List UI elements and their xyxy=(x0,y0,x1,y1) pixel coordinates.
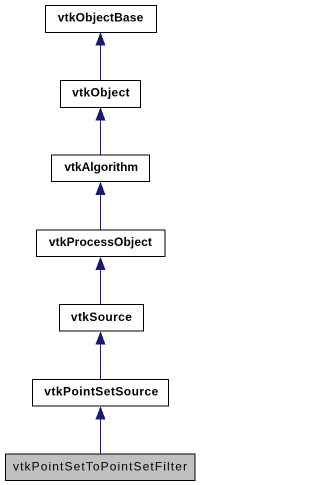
svg-text:vtkPointSetToPointSetFilter: vtkPointSetToPointSetFilter xyxy=(13,459,187,473)
svg-text:vtkPointSetSource: vtkPointSetSource xyxy=(44,385,158,399)
inheritance arrow vtkPointSetSource to vtkSource xyxy=(96,331,106,379)
class box vtkSource xyxy=(60,305,144,331)
svg-text:vtkSource: vtkSource xyxy=(71,310,132,324)
svg-text:vtkObject: vtkObject xyxy=(72,86,130,100)
inheritance arrow vtkAlgorithm to vtkObject xyxy=(96,107,106,155)
inheritance arrow vtkSource to vtkProcessObject xyxy=(96,257,106,305)
svg-text:vtkProcessObject: vtkProcessObject xyxy=(49,235,152,249)
inheritance arrow vtkProcessObject to vtkAlgorithm xyxy=(96,182,106,230)
class box vtkAlgorithm xyxy=(52,155,150,181)
inheritance arrow vtkObject to vtkObjectBase xyxy=(96,32,106,80)
svg-text:vtkAlgorithm: vtkAlgorithm xyxy=(64,160,138,174)
class box vtkPointSetSource xyxy=(33,379,169,405)
current class box vtkPointSetToPointSetFilter (grey) xyxy=(6,454,196,481)
class box vtkObject xyxy=(61,81,141,108)
class box vtkProcessObject xyxy=(37,230,166,256)
svg-text:vtkObjectBase: vtkObjectBase xyxy=(58,11,144,25)
class box vtkObjectBase xyxy=(46,6,157,33)
inheritance arrow vtkPointSetToPointSetFilter to vtkPointSetSource xyxy=(96,406,106,454)
